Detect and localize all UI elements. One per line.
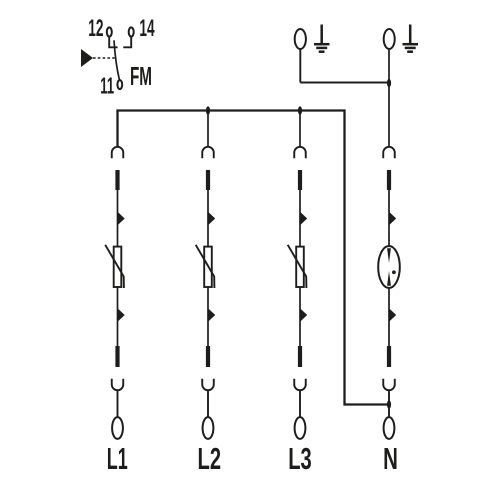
actuator dashed link <box>93 57 116 59</box>
terminal N <box>384 417 395 439</box>
contact seat 12 <box>109 36 117 47</box>
wire PE1 down <box>299 49 301 83</box>
wire L2 drop <box>207 111 209 148</box>
cartridge bar bottom N <box>387 346 391 367</box>
junction bus L3 <box>298 106 302 115</box>
cartridge bar top L2 <box>206 170 210 190</box>
plug contact bottom L2 <box>202 379 214 418</box>
cartridge bar bottom L1 <box>115 346 119 367</box>
plug contact top N <box>383 147 395 158</box>
contact point 14 <box>129 27 134 36</box>
cartridge bar top L3 <box>298 170 302 190</box>
arrow disconnect N lower <box>389 308 396 321</box>
junction N bottom <box>387 400 391 409</box>
cartridge bar top N <box>387 170 391 190</box>
arrow disconnect L2 lower <box>208 308 215 321</box>
ground symbol PE2 <box>403 25 419 52</box>
gas discharge tube N-PE <box>378 246 400 288</box>
terminal L1 <box>112 417 123 439</box>
svg-text:L3: L3 <box>288 441 312 477</box>
arrow disconnect L3 upper <box>300 212 307 225</box>
arrow disconnect L3 lower <box>300 308 307 321</box>
wire L1 upper <box>117 190 119 247</box>
junction bus L2 <box>206 106 210 115</box>
junction PE/N <box>387 79 391 88</box>
arrow disconnect L2 upper <box>208 212 215 225</box>
wire L2 upper <box>207 190 209 247</box>
arrow disconnect L1 lower <box>118 308 125 321</box>
contact point 12 <box>107 27 112 36</box>
switch lever FM <box>114 40 120 80</box>
terminal L2 <box>203 417 214 439</box>
plug contact bottom L1 <box>112 379 124 418</box>
svg-text:N: N <box>383 441 398 476</box>
cartridge bar top L1 <box>115 170 119 190</box>
terminal PE1 <box>295 29 306 49</box>
wire L3 upper <box>299 190 301 247</box>
contact seat 14 <box>123 36 131 47</box>
svg-text:FM: FM <box>130 63 152 91</box>
plug contact top L3 <box>294 147 306 158</box>
wire PE2 down <box>388 49 390 147</box>
ground symbol PE1 <box>314 25 330 52</box>
arrow disconnect N upper <box>389 212 396 225</box>
svg-text:14: 14 <box>139 15 154 42</box>
wire PE horizontal <box>300 81 389 83</box>
svg-text:L1: L1 <box>107 442 128 476</box>
varistor L3 <box>288 245 307 288</box>
wire N upper <box>388 190 390 247</box>
plug contact top L1 <box>112 147 124 158</box>
wire L2 lower <box>207 287 209 346</box>
arrow disconnect L1 upper <box>118 212 125 225</box>
wire L3 drop <box>299 111 301 148</box>
cartridge bar bottom L2 <box>206 346 210 367</box>
plug contact bottom N <box>383 379 395 418</box>
svg-text:11: 11 <box>100 73 114 99</box>
wire bus <box>118 111 389 405</box>
wire L3 lower <box>299 287 301 346</box>
wire N lower <box>388 288 390 346</box>
wire L1 lower <box>117 287 119 346</box>
svg-text:L2: L2 <box>198 441 222 477</box>
terminal PE2 <box>384 29 395 49</box>
actuator arrow <box>81 49 93 67</box>
varistor L1 <box>105 245 124 288</box>
varistor L2 <box>196 245 215 288</box>
cartridge bar bottom L3 <box>298 346 302 367</box>
terminal L3 <box>295 417 306 439</box>
plug contact bottom L3 <box>294 379 306 418</box>
plug contact top L2 <box>202 147 214 158</box>
svg-text:12: 12 <box>88 15 103 42</box>
contact point 11 <box>117 80 122 89</box>
